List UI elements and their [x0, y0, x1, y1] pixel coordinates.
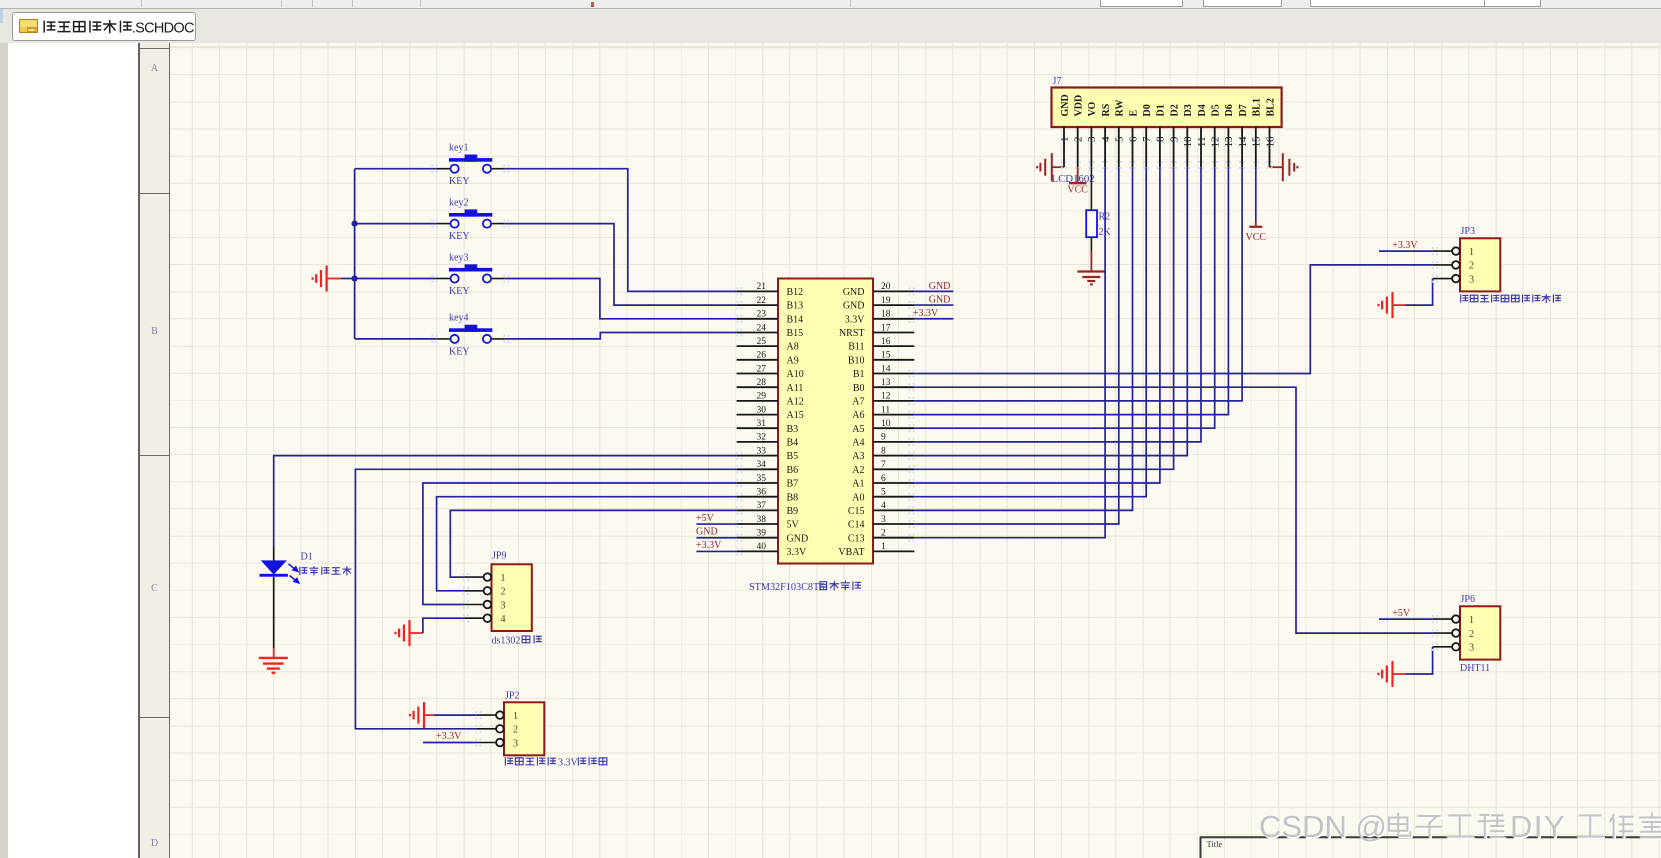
- title block: [1200, 837, 1661, 858]
- svg-text:36: 36: [757, 487, 767, 497]
- svg-text:E: E: [1128, 110, 1139, 117]
- svg-text:RS: RS: [1101, 103, 1112, 116]
- wire key2 to pin22: [505, 224, 737, 306]
- svg-text:key4: key4: [449, 313, 468, 324]
- label MCU caption STM32F103C8T6: [749, 581, 861, 593]
- svg-text:key3: key3: [449, 252, 468, 263]
- connector JP6 DHT11: [1433, 594, 1501, 660]
- wire JP6 pin3 gnd: [1406, 647, 1433, 674]
- svg-text:4: 4: [500, 614, 506, 625]
- junction key3 bus: [352, 275, 358, 281]
- svg-text:A6: A6: [852, 410, 864, 421]
- LED D1: [260, 547, 313, 649]
- svg-text:A15: A15: [787, 410, 804, 421]
- wire JP3 pin3 gnd: [1406, 279, 1433, 306]
- svg-text:18: 18: [881, 310, 891, 320]
- svg-text:3.3V: 3.3V: [787, 547, 808, 558]
- svg-text:11: 11: [881, 405, 890, 415]
- svg-text:1: 1: [1059, 137, 1071, 143]
- svg-text:RW: RW: [1115, 100, 1126, 117]
- left gray strip: [0, 43, 8, 858]
- svg-text:CSDN @: CSDN @: [1259, 809, 1387, 844]
- svg-text:37: 37: [757, 501, 767, 511]
- ground at J7 pin1: [1037, 153, 1064, 181]
- svg-text:21: 21: [757, 282, 767, 292]
- svg-text:3: 3: [881, 515, 886, 525]
- wire bus to key2: [355, 223, 437, 225]
- svg-text:25: 25: [757, 337, 767, 347]
- svg-text:B6: B6: [787, 465, 799, 476]
- svg-text:A0: A0: [852, 492, 864, 503]
- wire J7 pin6 to MCU pin4: [914, 167, 1132, 510]
- svg-text:STM32F103C8T6: STM32F103C8T6: [749, 582, 824, 593]
- svg-text:15: 15: [881, 351, 891, 361]
- svg-text:D2: D2: [1169, 104, 1180, 116]
- wire GND pin19: [914, 304, 953, 306]
- svg-text:+3.3V: +3.3V: [913, 308, 939, 319]
- svg-text:2: 2: [1469, 261, 1474, 272]
- resistor R2 2K: [1086, 210, 1111, 238]
- wire J7 pin13 to MCU pin11: [914, 167, 1228, 414]
- svg-text:1: 1: [1469, 615, 1474, 626]
- svg-text:13: 13: [881, 378, 891, 388]
- svg-text:3.3V: 3.3V: [558, 758, 579, 769]
- connector JP3 fan relay: [1433, 226, 1501, 292]
- ground at JP6 pin3: [1379, 661, 1406, 687]
- svg-text:10: 10: [1182, 136, 1194, 148]
- svg-text:3: 3: [500, 600, 505, 611]
- svg-text:1: 1: [500, 573, 505, 584]
- ground below R2: [1077, 251, 1105, 284]
- svg-text:A5: A5: [852, 424, 864, 435]
- svg-text:7: 7: [1141, 136, 1153, 142]
- svg-text:2: 2: [500, 587, 505, 598]
- svg-text:VBAT: VBAT: [838, 547, 864, 558]
- svg-text:B10: B10: [848, 355, 865, 366]
- wire JP2 pin1 gnd: [434, 714, 477, 716]
- svg-text:+3.3V: +3.3V: [696, 540, 722, 551]
- svg-text:8: 8: [881, 446, 886, 456]
- label JP3 comment fan: [1461, 295, 1561, 303]
- wire J7 pin7 to MCU pin5: [914, 167, 1146, 497]
- svg-text:DHT11: DHT11: [1460, 663, 1490, 674]
- svg-text:B1: B1: [853, 369, 865, 380]
- svg-text:GND: GND: [843, 301, 865, 312]
- svg-text:B14: B14: [787, 314, 804, 325]
- svg-text:4: 4: [881, 501, 886, 511]
- svg-text:33: 33: [757, 446, 767, 456]
- svg-text:11: 11: [1196, 137, 1208, 148]
- svg-text:D1: D1: [1156, 104, 1167, 116]
- svg-text:VCC: VCC: [1246, 232, 1267, 243]
- svg-text:10: 10: [881, 419, 891, 429]
- wire +3.3V pin18: [914, 318, 953, 320]
- wire J7 pin3 to R2: [1090, 167, 1092, 210]
- wire J7 pin4 to MCU pin2: [914, 167, 1105, 538]
- svg-text:D6: D6: [1224, 104, 1235, 116]
- svg-text:2: 2: [881, 529, 886, 539]
- wire J7 pin10 to MCU pin8: [914, 167, 1187, 455]
- wire key1 to pin21: [505, 169, 737, 292]
- svg-text:12: 12: [1210, 137, 1222, 148]
- svg-text:3: 3: [1469, 643, 1474, 654]
- switch key2: [437, 197, 505, 242]
- wire J7 pin11 to MCU pin9: [914, 167, 1201, 442]
- svg-text:1: 1: [881, 542, 886, 552]
- svg-text:9: 9: [881, 433, 886, 443]
- svg-text:GND: GND: [843, 287, 865, 298]
- svg-text:29: 29: [757, 392, 767, 402]
- wire J7 pin14 to MCU pin12: [914, 167, 1242, 401]
- svg-text:A4: A4: [852, 438, 864, 449]
- wire +5V to pin38: [696, 523, 736, 525]
- svg-text:A9: A9: [787, 355, 799, 366]
- svg-text:B4: B4: [787, 438, 799, 449]
- ground at J7 pin16: [1270, 153, 1298, 181]
- svg-text:C15: C15: [848, 506, 865, 517]
- svg-text:3.3V: 3.3V: [845, 314, 866, 325]
- svg-text:B5: B5: [787, 451, 799, 462]
- svg-text:32: 32: [757, 433, 767, 443]
- svg-text:D4: D4: [1197, 104, 1208, 116]
- svg-text:B7: B7: [787, 479, 799, 490]
- svg-text:A12: A12: [787, 396, 804, 407]
- svg-text:35: 35: [757, 474, 767, 484]
- ground at key bus: [313, 266, 341, 292]
- svg-text:26: 26: [757, 351, 767, 361]
- wire JP6 pin1 +5V: [1379, 618, 1433, 620]
- svg-text:5: 5: [1114, 136, 1126, 142]
- wire J7 pin8 to MCU pin6: [914, 167, 1160, 483]
- svg-text:1: 1: [513, 711, 518, 722]
- svg-text:1: 1: [1469, 247, 1474, 258]
- wire GND to pin39: [696, 537, 736, 539]
- wire JP9 pin4 gnd: [423, 618, 464, 633]
- svg-text:39: 39: [757, 529, 767, 539]
- node connection marks: [431, 161, 1438, 747]
- wire MCU pin14 to JP3 pin2: [914, 265, 1432, 374]
- svg-text:3: 3: [1086, 136, 1098, 142]
- svg-text:D3: D3: [1183, 104, 1194, 116]
- svg-text:D1: D1: [301, 552, 313, 563]
- svg-text:2: 2: [1073, 137, 1085, 143]
- wire MCU pin37 to JP9 pin1: [450, 510, 736, 577]
- svg-text:+5V: +5V: [1392, 608, 1411, 619]
- svg-text:A11: A11: [787, 383, 804, 394]
- svg-text:3: 3: [1469, 274, 1474, 285]
- svg-text:9: 9: [1168, 136, 1180, 142]
- svg-text:4: 4: [1100, 136, 1112, 142]
- svg-text:GND: GND: [929, 294, 951, 305]
- white navigator panel: [8, 43, 140, 858]
- svg-text:5V: 5V: [787, 520, 800, 531]
- svg-text:16: 16: [1264, 136, 1276, 148]
- svg-text:key1: key1: [449, 143, 468, 154]
- svg-text:A2: A2: [852, 465, 864, 476]
- wire J7 pin12 to MCU pin10: [914, 167, 1214, 428]
- svg-text:+5V: +5V: [696, 513, 715, 524]
- svg-text:B12: B12: [787, 287, 804, 298]
- svg-text:B3: B3: [787, 424, 799, 435]
- junction key2 bus: [352, 221, 358, 227]
- wire bus to key1: [355, 168, 437, 170]
- wire J7 pin5 to MCU pin3: [914, 167, 1119, 524]
- wire gnd to key bus: [341, 278, 355, 280]
- svg-text:B13: B13: [787, 301, 804, 312]
- svg-text:A1: A1: [852, 479, 864, 490]
- svg-text:BL2: BL2: [1265, 98, 1276, 116]
- svg-text:JP6: JP6: [1461, 594, 1475, 605]
- label D1 comment: [300, 567, 351, 575]
- svg-text:22: 22: [757, 296, 767, 306]
- connector J7 LCD1602 header: [1052, 88, 1282, 168]
- wire MCU pin34 to JP2 pin2: [355, 469, 736, 729]
- svg-text:B11: B11: [848, 342, 864, 353]
- svg-text:15: 15: [1251, 136, 1263, 148]
- svg-text:+3.3V: +3.3V: [1392, 240, 1418, 251]
- svg-text:2: 2: [513, 725, 518, 736]
- svg-text:Title: Title: [1207, 839, 1223, 849]
- svg-text:GND: GND: [787, 533, 809, 544]
- svg-text:key2: key2: [449, 197, 468, 208]
- ground at JP3 pin3: [1379, 292, 1406, 318]
- sheet zone strip A-D: [140, 43, 170, 858]
- svg-text:KEY: KEY: [449, 346, 470, 357]
- ground at JP2 pin1: [410, 702, 434, 728]
- wire MCU pin36 to JP9 pin2: [437, 497, 737, 591]
- svg-text:+3.3V: +3.3V: [436, 731, 462, 742]
- wire MCU pin13 to JP6 pin2: [914, 387, 1432, 633]
- svg-text:34: 34: [757, 460, 767, 470]
- ground below D1: [259, 648, 288, 673]
- svg-text:VO: VO: [1087, 101, 1098, 116]
- wire JP3 pin1 +3.3V: [1379, 250, 1433, 252]
- MCU U1 STM32F103C8T6: [737, 279, 915, 564]
- svg-text:A10: A10: [787, 369, 804, 380]
- connector JP9 ds1302: [464, 550, 532, 631]
- svg-text:GND: GND: [1060, 94, 1071, 116]
- svg-text:6: 6: [881, 474, 886, 484]
- svg-text:27: 27: [757, 364, 767, 374]
- wire MCU pin35 to JP9 pin3: [423, 483, 737, 605]
- svg-text:D5: D5: [1211, 104, 1222, 116]
- label JP2 comment buzzer: [505, 758, 606, 769]
- connector JP2 buzzer: [477, 691, 545, 756]
- svg-text:13: 13: [1223, 136, 1235, 148]
- switch key4: [437, 313, 505, 358]
- svg-text:17: 17: [881, 323, 891, 333]
- power VCC at J7 pin2: [1069, 167, 1086, 183]
- svg-text:A8: A8: [787, 342, 799, 353]
- wire key3 to pin23: [505, 279, 737, 319]
- watermark CSDN: [1259, 809, 1661, 845]
- svg-text:B8: B8: [787, 492, 799, 503]
- wire key4 to pin24: [505, 333, 737, 339]
- svg-text:19: 19: [881, 296, 891, 306]
- svg-text:B9: B9: [787, 506, 799, 517]
- power VCC at J7 pin15: [1246, 167, 1267, 243]
- wire JP2 pin3 +3.3V: [423, 742, 477, 744]
- document tab bar: [0, 9, 1661, 44]
- wire bus to key4: [355, 338, 437, 340]
- svg-text:23: 23: [757, 310, 767, 320]
- label JP9 comment ds1302: [492, 636, 542, 647]
- svg-text:NRST: NRST: [839, 328, 865, 339]
- svg-text:JP9: JP9: [492, 550, 506, 561]
- svg-text:20: 20: [881, 282, 891, 292]
- svg-text:J7: J7: [1053, 76, 1062, 87]
- svg-text:JP2: JP2: [505, 691, 519, 702]
- wire MCU pin33 to LED D1: [274, 456, 737, 547]
- svg-text:BL1: BL1: [1252, 98, 1263, 116]
- svg-text:JP3: JP3: [1461, 226, 1475, 237]
- svg-text:GND: GND: [696, 527, 718, 538]
- svg-text:12: 12: [881, 392, 891, 402]
- svg-text:KEY: KEY: [449, 231, 470, 242]
- svg-text:38: 38: [757, 515, 767, 525]
- svg-text:40: 40: [757, 542, 767, 552]
- svg-text:D7: D7: [1238, 104, 1249, 116]
- svg-text:6: 6: [1127, 136, 1139, 142]
- svg-text:VCC: VCC: [1067, 184, 1088, 195]
- svg-text:D0: D0: [1142, 104, 1153, 116]
- svg-text:VDD: VDD: [1074, 95, 1085, 117]
- svg-text:KEY: KEY: [449, 286, 470, 297]
- wire bus to key3: [355, 278, 437, 280]
- svg-text:8: 8: [1155, 136, 1167, 142]
- svg-text:B0: B0: [853, 383, 865, 394]
- svg-text:28: 28: [757, 378, 767, 388]
- svg-text:31: 31: [757, 419, 767, 429]
- svg-text:GND: GND: [929, 281, 951, 292]
- svg-text:B15: B15: [787, 328, 804, 339]
- svg-text:5: 5: [881, 487, 886, 497]
- svg-text:A3: A3: [852, 451, 864, 462]
- wire +3.3V to pin40: [696, 550, 736, 552]
- svg-text:ds1302: ds1302: [492, 636, 521, 647]
- svg-text:A7: A7: [852, 396, 864, 407]
- svg-text:DIY: DIY: [1510, 809, 1566, 844]
- svg-text:3: 3: [513, 738, 518, 749]
- switch key1: [437, 143, 505, 188]
- svg-text:24: 24: [757, 323, 767, 333]
- svg-text:14: 14: [1237, 136, 1249, 148]
- switch key3: [437, 252, 505, 297]
- svg-text:KEY: KEY: [449, 176, 470, 187]
- ground at JP9 pin4: [396, 620, 423, 646]
- wire J7 pin9 to MCU pin7: [914, 167, 1173, 469]
- svg-text:C14: C14: [848, 520, 865, 531]
- wire R2 to ground: [1090, 237, 1092, 251]
- svg-text:30: 30: [757, 405, 767, 415]
- wire GND pin20: [914, 290, 953, 292]
- top toolbar strip: [0, 0, 1661, 9]
- svg-text:14: 14: [881, 364, 891, 374]
- svg-text:7: 7: [881, 460, 886, 470]
- svg-text:16: 16: [881, 337, 891, 347]
- svg-text:2: 2: [1469, 629, 1474, 640]
- svg-text:C13: C13: [848, 533, 865, 544]
- wire key bus vertical: [354, 169, 356, 339]
